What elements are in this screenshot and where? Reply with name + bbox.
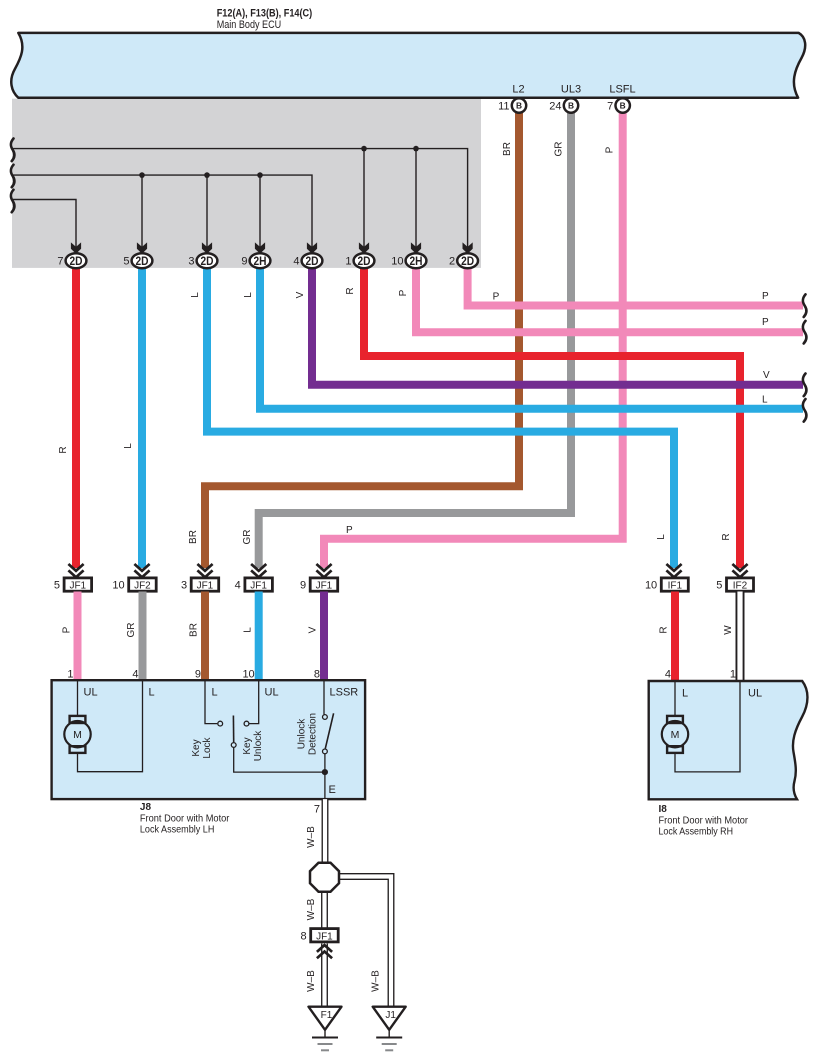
svg-text:BR: BR bbox=[502, 142, 513, 156]
svg-text:M: M bbox=[73, 729, 82, 741]
svg-text:2D: 2D bbox=[136, 256, 149, 268]
break squiggle left line C bbox=[11, 190, 15, 213]
connector circle 11 B bbox=[498, 98, 526, 112]
wire R from 1-2D to IF2-5 bbox=[364, 266, 740, 568]
svg-text:1: 1 bbox=[730, 669, 736, 681]
svg-text:9: 9 bbox=[241, 255, 247, 267]
svg-text:P: P bbox=[398, 289, 409, 296]
svg-text:9: 9 bbox=[300, 580, 306, 592]
svg-text:LSSR: LSSR bbox=[330, 687, 359, 699]
break squiggle left line A bbox=[11, 139, 15, 162]
wire P from ECU 7-B to JF1-9 bbox=[324, 110, 623, 568]
svg-text:L: L bbox=[123, 443, 134, 449]
svg-text:2D: 2D bbox=[70, 256, 83, 268]
svg-text:3: 3 bbox=[181, 580, 187, 592]
svg-text:LSFL: LSFL bbox=[609, 84, 635, 96]
connector circle 24 B bbox=[549, 98, 578, 112]
svg-text:L: L bbox=[682, 688, 688, 700]
break squiggle right L bbox=[803, 399, 807, 422]
svg-text:W–B: W–B bbox=[306, 898, 317, 920]
break squiggle right V bbox=[803, 374, 807, 397]
svg-text:V: V bbox=[763, 370, 770, 381]
wire R from IF1-10 to I8 pin4 bbox=[671, 592, 679, 683]
wire P from JF1-5 to J8 pin1 bbox=[74, 592, 82, 682]
svg-text:Detection: Detection bbox=[308, 713, 319, 755]
svg-text:Front Door with Motor: Front Door with Motor bbox=[140, 814, 230, 825]
junction dot on line A at 1-2D bbox=[361, 146, 367, 152]
unlock detection bottom contact bbox=[323, 749, 328, 754]
svg-text:L: L bbox=[149, 687, 155, 699]
svg-text:P: P bbox=[493, 292, 500, 303]
arrow into 4-2D bbox=[307, 242, 317, 253]
svg-text:7: 7 bbox=[314, 804, 320, 816]
svg-text:BR: BR bbox=[188, 530, 199, 544]
svg-text:2: 2 bbox=[449, 255, 455, 267]
internal bus line A bbox=[13, 149, 468, 247]
svg-text:V: V bbox=[308, 626, 319, 633]
wire W-B JF1-8 to ground F1 bbox=[321, 944, 328, 1008]
svg-text:2H: 2H bbox=[254, 256, 267, 268]
arrow into JF1-9 bbox=[316, 564, 331, 577]
svg-text:3: 3 bbox=[188, 255, 194, 267]
svg-text:Unlock: Unlock bbox=[253, 730, 264, 762]
key unlock switch wiring bbox=[249, 681, 258, 724]
svg-text:B: B bbox=[620, 101, 626, 111]
connector IF1-10 bbox=[645, 578, 688, 592]
svg-text:10: 10 bbox=[391, 255, 403, 267]
svg-text:1: 1 bbox=[345, 255, 351, 267]
connector oval 9 2H bbox=[241, 253, 270, 268]
arrow into 9-2H bbox=[255, 242, 265, 253]
svg-text:I8: I8 bbox=[659, 804, 668, 815]
svg-text:Lock: Lock bbox=[202, 736, 213, 758]
svg-text:L: L bbox=[212, 687, 218, 699]
wire V from JF1-9 to J8 pin8 bbox=[320, 592, 328, 682]
svg-text:24: 24 bbox=[549, 100, 561, 112]
svg-text:P: P bbox=[605, 146, 616, 153]
svg-text:M: M bbox=[671, 729, 680, 741]
arrow into 5-2D bbox=[137, 242, 147, 253]
svg-text:2D: 2D bbox=[358, 256, 371, 268]
svg-text:10: 10 bbox=[242, 669, 254, 681]
svg-text:JF2: JF2 bbox=[134, 581, 151, 592]
svg-text:11: 11 bbox=[498, 100, 509, 112]
arrow into 3-2D bbox=[202, 242, 212, 253]
break squiggle right P top bbox=[803, 294, 807, 317]
wire W-B junction to JF1-8 bbox=[321, 891, 328, 929]
connector oval 4 2D bbox=[293, 253, 322, 268]
connector oval 3 2D bbox=[188, 253, 217, 268]
svg-text:JF1: JF1 bbox=[316, 931, 333, 942]
svg-text:UL: UL bbox=[84, 687, 98, 699]
box I8 Front Door with Motor Lock Assembly RH bbox=[649, 681, 808, 799]
svg-text:JF1: JF1 bbox=[69, 581, 86, 592]
box J8 Front Door with Motor Lock Assembly LH bbox=[52, 680, 366, 799]
svg-text:GR: GR bbox=[554, 142, 565, 157]
svg-text:Key: Key bbox=[242, 737, 253, 754]
svg-text:2D: 2D bbox=[201, 256, 214, 268]
wire inside I8 motor to pin1 bbox=[675, 682, 740, 772]
svg-text:P: P bbox=[762, 317, 769, 328]
wire V from 4-2D exiting right bbox=[312, 266, 803, 385]
arrow into IF1-10 bbox=[666, 564, 681, 577]
svg-text:W–B: W–B bbox=[371, 970, 382, 992]
arrow into 10-2H bbox=[411, 242, 421, 253]
earth symbol F1 bbox=[312, 1030, 338, 1051]
junction dot E node bbox=[322, 769, 328, 775]
svg-text:J8: J8 bbox=[140, 802, 152, 813]
svg-text:Lock Assembly LH: Lock Assembly LH bbox=[140, 825, 215, 836]
wire R from 7-2D to JF1-5 bbox=[72, 266, 80, 568]
junction dot on line B at 9-2H bbox=[257, 172, 263, 178]
Main Body ECU band bbox=[11, 33, 805, 98]
wire W-B junction right branch to J1 bbox=[338, 877, 391, 1008]
connector JF1-9 bbox=[300, 578, 338, 592]
junction connector octagon bbox=[310, 863, 339, 892]
wire L from 5-2D to JF2-10 bbox=[138, 266, 146, 568]
wire key switch common to junction bbox=[234, 747, 325, 772]
svg-text:F1: F1 bbox=[321, 1010, 333, 1021]
unlock detection wiring from pin8 bbox=[323, 681, 325, 714]
svg-text:R: R bbox=[345, 287, 356, 294]
ground point F1 bbox=[309, 1007, 342, 1030]
svg-text:4: 4 bbox=[665, 669, 671, 681]
svg-text:4: 4 bbox=[293, 255, 299, 267]
svg-text:Unlock: Unlock bbox=[297, 718, 308, 750]
svg-text:JF1: JF1 bbox=[316, 581, 333, 592]
connector oval 10 2H bbox=[391, 253, 426, 268]
svg-text:4: 4 bbox=[132, 669, 138, 681]
arrow into JF1-5 bbox=[68, 564, 83, 577]
arrow into 1-2D bbox=[359, 242, 369, 253]
connector oval 1 2D bbox=[345, 253, 374, 268]
svg-text:F12(A), F13(B), F14(C): F12(A), F13(B), F14(C) bbox=[217, 8, 313, 20]
key switch pivot contact bbox=[231, 743, 236, 748]
svg-text:W: W bbox=[723, 625, 734, 635]
key switch blade bbox=[232, 716, 234, 743]
connector oval 2 2D bbox=[449, 253, 478, 268]
svg-text:IF1: IF1 bbox=[668, 581, 683, 592]
earth symbol J1 bbox=[376, 1030, 402, 1051]
svg-text:1: 1 bbox=[67, 669, 73, 681]
svg-text:L: L bbox=[762, 395, 768, 406]
wire L from 3-2D to IF1-10 bbox=[207, 266, 674, 568]
wire P from 2-2D exiting right bbox=[468, 266, 803, 306]
wire L from 9-2H exiting right bbox=[260, 266, 803, 409]
connector JF2-10 bbox=[112, 578, 156, 592]
wire unlock detection to box bottom bbox=[324, 754, 326, 799]
svg-text:GR: GR bbox=[242, 530, 253, 545]
svg-text:L: L bbox=[190, 292, 201, 298]
wire GR from JF2-10 to J8 pin4 bbox=[139, 592, 147, 682]
svg-text:5: 5 bbox=[123, 255, 129, 267]
arrow into JF1-3 bbox=[197, 564, 212, 577]
svg-text:7: 7 bbox=[57, 255, 63, 267]
wire P from 10-2H exiting right bbox=[416, 266, 803, 332]
svg-text:2D: 2D bbox=[306, 256, 319, 268]
connector JF1-3 bbox=[181, 578, 219, 592]
arrow into JF2-10 bbox=[134, 564, 149, 577]
arrow into JF1-4 bbox=[251, 564, 266, 577]
wire BR from JF1-3 to J8 pin9 bbox=[201, 592, 209, 682]
connector JF1-5 bbox=[54, 578, 92, 592]
svg-text:UL: UL bbox=[265, 687, 279, 699]
svg-text:B: B bbox=[568, 101, 574, 111]
svg-text:2H: 2H bbox=[410, 256, 423, 268]
junction dot on line B at 5-2D bbox=[139, 172, 145, 178]
svg-text:8: 8 bbox=[314, 669, 320, 681]
arrow into 7-2D bbox=[71, 242, 81, 253]
connector circle 7 B bbox=[607, 98, 630, 112]
connector JF1-4 bbox=[235, 578, 273, 592]
svg-text:Key: Key bbox=[191, 739, 202, 756]
svg-text:UL: UL bbox=[748, 688, 762, 700]
svg-text:7: 7 bbox=[607, 100, 613, 112]
svg-text:JF1: JF1 bbox=[197, 581, 214, 592]
arrow into IF2-5 bbox=[732, 564, 747, 577]
unlock detection top contact bbox=[323, 715, 328, 720]
break squiggle left line B bbox=[11, 165, 15, 188]
wire W from IF2-5 to I8 pin1 bbox=[736, 592, 745, 683]
key lock switch wiring bbox=[205, 681, 217, 724]
svg-text:L: L bbox=[243, 292, 254, 298]
svg-text:2D: 2D bbox=[461, 256, 474, 268]
internal bus line B bbox=[13, 175, 312, 247]
connector oval 5 2D bbox=[123, 253, 152, 268]
key lock contact bbox=[218, 721, 223, 726]
svg-text:UL3: UL3 bbox=[561, 84, 581, 96]
svg-text:L: L bbox=[243, 627, 254, 633]
svg-text:5: 5 bbox=[54, 580, 60, 592]
svg-text:W–B: W–B bbox=[306, 826, 317, 848]
svg-text:GR: GR bbox=[126, 623, 137, 638]
svg-text:BR: BR bbox=[189, 623, 200, 637]
svg-text:J1: J1 bbox=[385, 1010, 396, 1021]
connector IF2-5 bbox=[716, 578, 753, 592]
wire inside I8 pin4 to motor bbox=[674, 682, 676, 716]
svg-text:Main Body ECU: Main Body ECU bbox=[217, 19, 282, 31]
svg-text:R: R bbox=[721, 533, 732, 540]
svg-text:JF1: JF1 bbox=[250, 581, 267, 592]
svg-text:10: 10 bbox=[112, 580, 124, 592]
svg-text:B: B bbox=[516, 101, 522, 111]
svg-text:5: 5 bbox=[716, 580, 722, 592]
wire W-B from J8 pin7 to junction bbox=[322, 799, 329, 863]
ground point J1 bbox=[373, 1007, 406, 1030]
connector oval 7 2D bbox=[57, 253, 86, 268]
wire inside J8 motor to pin4 bbox=[78, 681, 143, 772]
junction dot on line B at 3-2D bbox=[204, 172, 210, 178]
key unlock contact bbox=[244, 721, 249, 726]
svg-text:V: V bbox=[295, 291, 306, 298]
arrow up out of JF1-8 bbox=[317, 945, 332, 958]
svg-text:9: 9 bbox=[195, 669, 201, 681]
svg-text:Front Door with Motor: Front Door with Motor bbox=[659, 816, 749, 827]
svg-text:Lock Assembly RH: Lock Assembly RH bbox=[659, 827, 734, 838]
svg-text:IF2: IF2 bbox=[733, 581, 748, 592]
break squiggle right P second bbox=[803, 321, 807, 344]
svg-text:L2: L2 bbox=[512, 84, 524, 96]
connector JF1-8 bbox=[300, 929, 338, 943]
arrow into 2-2D bbox=[463, 242, 473, 253]
wire L from JF1-4 to J8 pin10 bbox=[255, 592, 263, 682]
svg-text:P: P bbox=[62, 626, 73, 633]
svg-text:E: E bbox=[329, 784, 336, 796]
wire BR from ECU 11-B to JF1-3 bbox=[205, 110, 519, 568]
wire inside J8 pin1 to motor bbox=[77, 681, 79, 716]
svg-text:R: R bbox=[58, 446, 69, 453]
internal bus line C bbox=[13, 200, 76, 248]
unlock detection blade bbox=[325, 713, 333, 748]
svg-text:4: 4 bbox=[235, 580, 241, 592]
svg-text:R: R bbox=[659, 626, 670, 633]
svg-text:W–B: W–B bbox=[306, 970, 317, 992]
svg-text:8: 8 bbox=[300, 930, 306, 942]
junction dot on line A at 10-2H bbox=[413, 146, 419, 152]
gray harness area bbox=[12, 99, 481, 268]
svg-text:L: L bbox=[656, 534, 667, 540]
motor M in I8 bbox=[662, 716, 688, 753]
svg-text:P: P bbox=[346, 525, 353, 536]
wire GR from ECU 24-B to JF1-4 bbox=[259, 110, 571, 568]
svg-text:P: P bbox=[762, 291, 769, 302]
motor M in J8 bbox=[64, 716, 90, 753]
svg-text:10: 10 bbox=[645, 580, 657, 592]
